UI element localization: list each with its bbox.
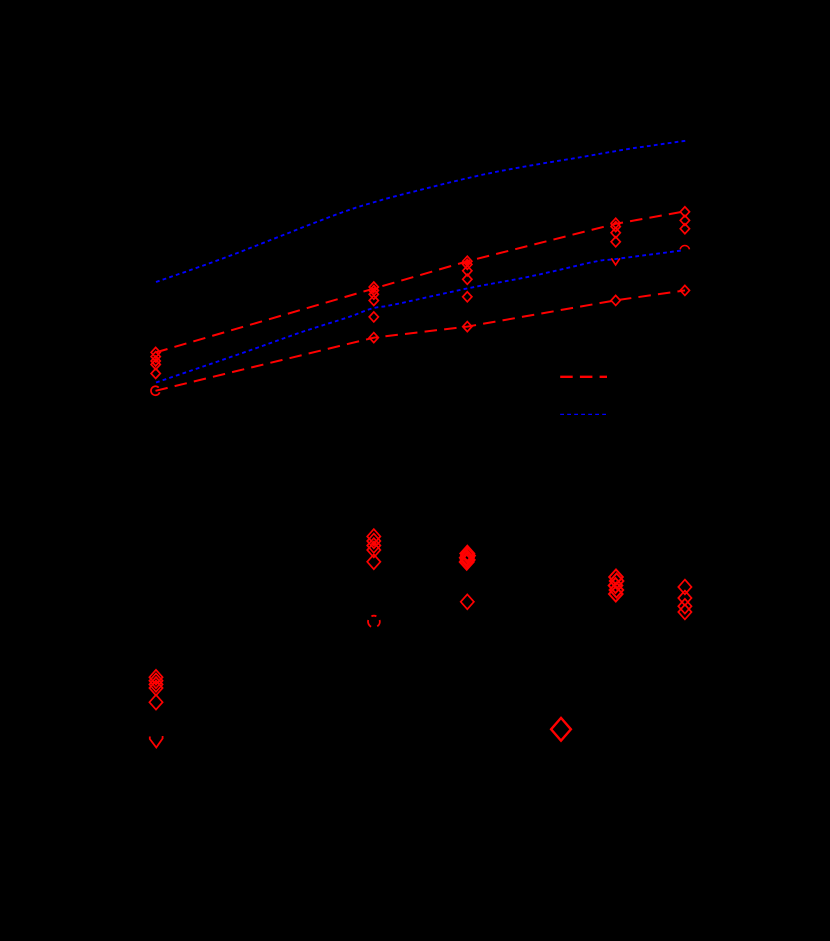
marker overlap fill (156,360) [153,358,158,364]
marker diamond bottom (467,558) [460,550,474,565]
marker diamond top (685,220) [680,215,689,225]
marker diamond bottom (616,590) [610,583,624,598]
marker diamond on lower line (467,327) [463,322,472,332]
marker diamond top (156,374) [151,369,160,379]
marker large diamond (561,729.3) [551,718,571,741]
fit curve blue dotted lower [156,251,681,383]
marker half diamond V bottom (156.3,742) [150,736,163,748]
marker diamond bottom (685,606) [678,599,691,614]
marker diamond top (467,279) [463,274,472,284]
marker diamond top (156,357) [151,352,160,362]
marker diamond on lower line (616,300) [611,295,620,305]
marker diamond bottom (685,598) [678,591,691,606]
marker diamond top (467,264) [463,259,472,269]
data line red dashed upper [156,211,686,352]
marker diamond bottom (156,684) [149,677,162,692]
marker diamond top (156,364) [151,360,160,370]
marker overlap fill (374,544) [371,540,377,547]
marker diamond bottom (467,556) [461,548,475,563]
marker diamond bottom (374,550) [367,543,380,558]
marker diamond bottom (616,577) [609,570,623,585]
marker diamond top (374,317) [369,312,378,322]
marker diamond top (467,261) [463,256,472,266]
legend sample blue dotted [560,413,607,415]
marker diamond bottom (156,688) [149,681,162,696]
marker diamond bottom (374,536) [367,529,380,544]
marker diamond bottom (467,562) [460,554,474,569]
marker diamond bottom (685,612) [678,605,691,620]
marker overlap fill (156,682) [153,679,159,686]
marker diamond bottom (156,677) [149,670,162,685]
marker diamond bottom (467,554) [461,546,475,561]
marker partial circle G (155.5,390.8) [151,386,160,395]
marker diamond top (616,227) [611,222,620,232]
marker arc (684.8,248.6) [680,245,689,249]
marker broken ring bottom (373.9,621.6) [371,615,376,618]
marker diamond bottom (156,702) [149,695,162,710]
marker overlap fill (467,263) [465,260,471,266]
marker diamond top (156,352) [151,347,160,357]
marker diamond bottom (374,562) [367,554,380,569]
marker diamond bottom (374,546) [367,538,380,553]
marker diamond top (156,361) [151,356,160,366]
marker diamond top (616,233) [611,228,620,238]
marker diamond top (374,290) [369,286,378,296]
marker diamond top (374,300) [369,296,378,306]
marker diamond bottom (616,594) [609,587,623,602]
legend sample red dashed [560,376,607,378]
marker diamond on lower line (685,290) [680,285,689,295]
marker diamond bottom (156,681) [149,673,162,688]
marker diamond top (685,229) [680,224,689,234]
marker diamond bottom (467,560) [461,552,475,567]
fit curve blue dotted upper [156,141,687,283]
marker diamond top (374,294) [369,289,378,299]
marker diamond bottom (374,541) [367,534,380,549]
marker diamond top (616,242) [611,237,620,247]
marker diamond bottom (616,581) [610,574,624,589]
marker diamond top (616,223) [611,218,620,228]
marker diamond top (467,271) [463,266,472,276]
marker diamond bottom (685,587) [678,580,691,595]
marker diamond bottom (616,586) [609,578,623,593]
marker diamond bottom (467,602) [461,594,474,609]
data line red dashed lower [156,290,686,390]
marker diamond top (374,287) [369,282,378,292]
marker diamond top (467,297) [463,292,472,302]
marker diamond on lower line (374,338) [369,333,378,343]
marker diamond top (685,212) [680,207,689,217]
marker overlap fill (374,291) [371,288,377,294]
marker half diamond V (615.6,262) [611,258,620,265]
